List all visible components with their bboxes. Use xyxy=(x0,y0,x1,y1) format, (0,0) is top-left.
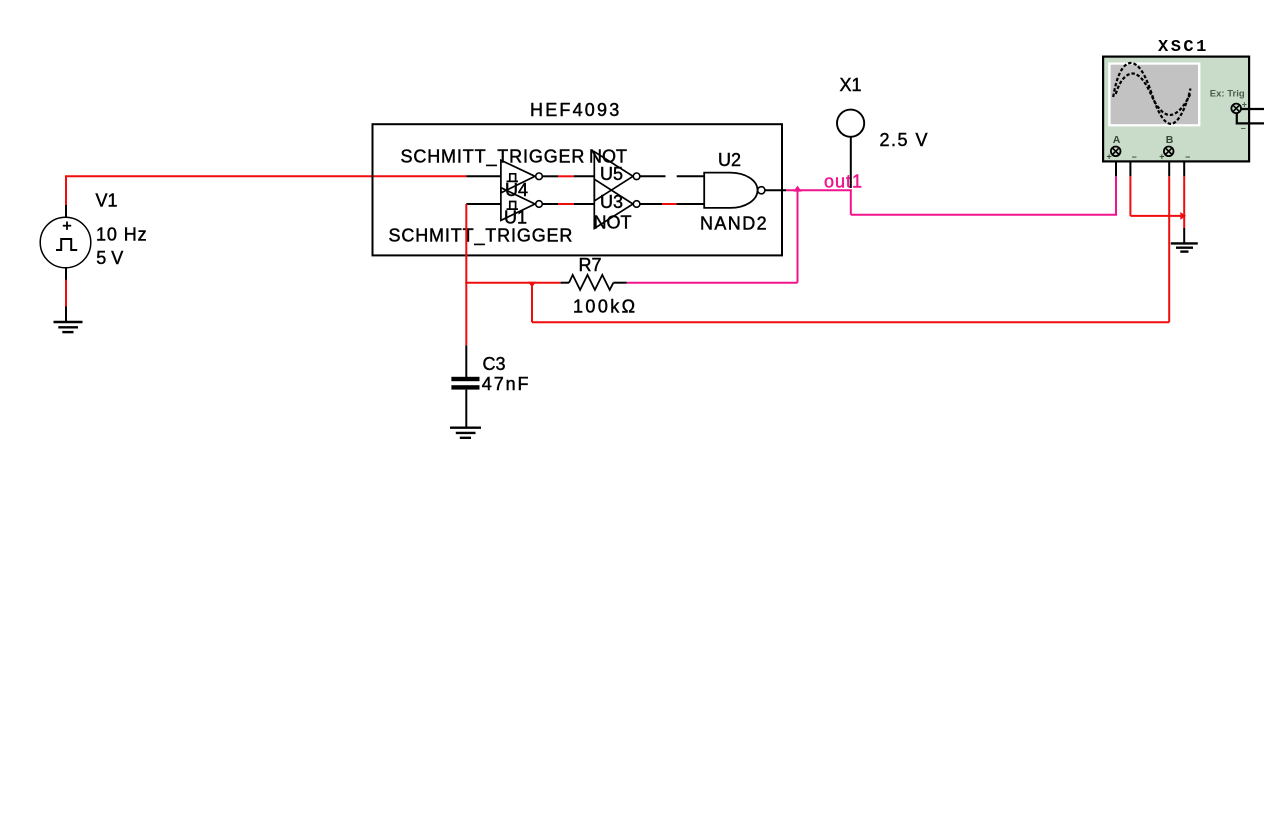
junction arrow at B minus (red) xyxy=(1180,212,1186,220)
terminal channel B xyxy=(1159,134,1190,162)
wire B minus down (red) xyxy=(1183,176,1185,228)
wire U4 out to U5 in xyxy=(542,175,594,177)
wire U2 output lead (black) xyxy=(765,189,786,191)
svg-text:SCHMITT_TRIGGER: SCHMITT_TRIGGER xyxy=(401,146,586,167)
wire ground lead (black) xyxy=(65,307,67,322)
wire up to scope channel B (red) xyxy=(1168,176,1170,322)
wire scope B lead (black) xyxy=(1168,156,1170,176)
wire net V1 top to U4 input (red) xyxy=(66,176,466,205)
wire U5 out to U2 top input (dashed black) xyxy=(640,175,704,177)
wire A minus to B minus (red) xyxy=(1130,215,1183,217)
svg-text:A: A xyxy=(1113,134,1121,146)
svg-text:C3: C3 xyxy=(483,354,506,374)
svg-text:–: – xyxy=(1185,152,1190,162)
junction arrow at R7 tap (red) xyxy=(528,282,536,288)
resistor R7 xyxy=(561,275,627,290)
svg-text:5 V: 5 V xyxy=(96,248,123,268)
schmitt trigger U1 xyxy=(501,188,542,221)
ground (C3) xyxy=(450,428,481,438)
svg-text:2.5 V: 2.5 V xyxy=(880,130,930,150)
terminal Ext Trig xyxy=(1231,100,1247,134)
svg-text:XSC1: XSC1 xyxy=(1158,38,1209,57)
svg-text:+: + xyxy=(1159,152,1164,162)
ground (scope) xyxy=(1171,243,1198,251)
wire feedback node vertical to C3 (red) xyxy=(465,204,467,345)
svg-text:SCHMITT_TRIGGER: SCHMITT_TRIGGER xyxy=(389,226,574,247)
wire V1 bottom to ground (red) xyxy=(65,280,67,307)
wire trig minus lead (black) xyxy=(1237,113,1264,124)
inverter U3 xyxy=(594,179,640,228)
wire U1 out to U3 in xyxy=(542,203,594,205)
svg-text:U2: U2 xyxy=(718,150,741,170)
svg-text:HEF4093: HEF4093 xyxy=(530,100,621,120)
wire U1 input lead (black) xyxy=(466,203,501,205)
capacitor C3 xyxy=(451,345,479,427)
nand gate U2 xyxy=(704,173,765,208)
svg-text:47nF: 47nF xyxy=(482,374,531,394)
wire U4 input lead (black) xyxy=(466,175,501,177)
inverter U5 xyxy=(594,152,640,201)
svg-text:U4: U4 xyxy=(505,180,528,200)
ground (V1) xyxy=(54,322,83,332)
svg-text:B: B xyxy=(1166,134,1174,146)
svg-text:NAND2: NAND2 xyxy=(700,214,768,234)
wire long bottom run to scope B (red) xyxy=(532,321,1169,323)
svg-text:–: – xyxy=(1132,152,1137,162)
wire scope A minus hook (black) xyxy=(1121,151,1131,176)
wire scope B minus hook (black) xyxy=(1174,151,1185,176)
probe X1 xyxy=(837,110,864,188)
oscilloscope XSC1 xyxy=(1103,57,1249,162)
svg-text:U5: U5 xyxy=(600,164,623,184)
svg-text:U1: U1 xyxy=(504,208,527,228)
svg-text:Ex: Trig: Ex: Trig xyxy=(1210,89,1245,100)
pulse voltage source V1 xyxy=(40,205,91,280)
junction arrow on out1 (magenta) xyxy=(793,186,801,192)
wire A minus down (red) xyxy=(1129,176,1131,216)
wire X1 node down (magenta) xyxy=(850,189,852,215)
wire out1 horizontal (magenta) xyxy=(786,189,851,191)
wire R7 right to out1 (magenta) xyxy=(627,282,798,284)
svg-text:100kΩ: 100kΩ xyxy=(573,296,638,316)
wire trig plus lead (black) xyxy=(1241,108,1264,110)
svg-text:+: + xyxy=(1107,152,1112,162)
wire U3 out to U2 bottom input xyxy=(640,203,704,205)
svg-text:R7: R7 xyxy=(579,255,602,275)
terminal channel A xyxy=(1107,134,1137,162)
IC package box HEF4093 xyxy=(373,124,783,255)
wire out1 run to scope A (magenta) xyxy=(851,176,1116,215)
svg-text:out1: out1 xyxy=(824,171,863,191)
schmitt trigger U4 xyxy=(501,160,542,193)
svg-text:V1: V1 xyxy=(96,191,118,211)
svg-text:U3: U3 xyxy=(600,192,623,212)
wire feedback node to R7 left (red) xyxy=(465,282,560,284)
wire tap down (red) xyxy=(531,283,533,323)
wire out1 down to R7 right (magenta) xyxy=(797,190,799,283)
svg-text:X1: X1 xyxy=(840,75,862,95)
wire scope A lead (black) xyxy=(1115,156,1117,176)
svg-text:10 Hz: 10 Hz xyxy=(96,225,148,245)
wire B minus ground lead (black) xyxy=(1183,228,1185,243)
svg-text:NOT: NOT xyxy=(594,213,632,233)
